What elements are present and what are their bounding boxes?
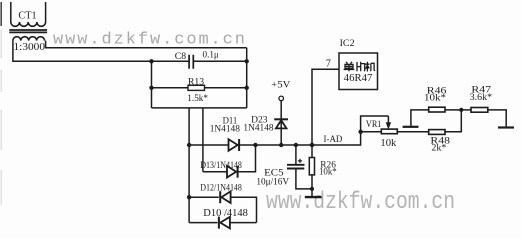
IC2 box [339,53,378,90]
svg-text:10k: 10k [380,138,397,149]
svg-text:CT1: CT1 [18,11,36,22]
label pin 7 [326,58,331,69]
svg-text:7: 7 [326,58,331,69]
svg-text:IC2: IC2 [340,39,355,49]
label 1N4148 (D11) [210,124,240,134]
svg-text:1.5k*: 1.5k* [187,94,208,104]
label R46 [427,87,447,97]
svg-text:+5V: +5V [271,80,290,90]
label D12/1N4148 [200,183,242,193]
svg-text:R13: R13 [188,78,204,88]
label C8 [175,52,187,62]
wire: pin 7 to I-AD node [312,69,339,145]
svg-text:1N4148: 1N4148 [243,124,273,134]
label 10k* (R26) [319,168,337,178]
diode D13 [203,145,256,178]
node: R13 right junction [245,86,249,90]
label I-AD [324,135,343,145]
node: pin7/R26 junction [310,143,314,147]
node: R26 top junction [310,143,314,147]
label 2k* [431,144,446,154]
label 3.6k* [470,93,493,103]
label D11 [223,117,238,127]
svg-text:www.dzkfw.com.cn: www.dzkfw.com.cn [53,31,245,50]
node: D23 junction [279,143,283,147]
svg-text:I-AD: I-AD [324,135,343,145]
svg-text:C8: C8 [175,52,187,62]
label 10k* (R46) [424,94,446,104]
label R47 [471,86,491,96]
label 1N4148 (D23) [243,124,273,134]
label 10k (VR1) [380,138,397,149]
svg-text:3.6k*: 3.6k* [470,93,493,103]
svg-text:10μ/16V: 10μ/16V [256,177,289,187]
svg-text:VR1: VR1 [366,120,382,130]
wire: ladder drop V2 [202,108,204,172]
scan artifact left edge [0,2,2,205]
ground (below R26) [305,189,322,197]
node: R13 left junction [149,86,153,90]
svg-text:D13/1N4148: D13/1N4148 [200,161,242,171]
node: VR1 left junction [358,130,362,134]
label IC2 [340,39,355,49]
node: D13 riser junction [253,143,257,147]
label D10/4148 [203,208,248,219]
wire: secondary right terminal to right rail [46,41,247,48]
node: C8 left junction [149,59,153,63]
svg-text:10k*: 10k* [424,94,446,104]
watermark top [53,31,245,50]
watermark bottom [266,189,455,216]
+5V terminal [279,96,284,128]
label VR1 [366,120,382,130]
svg-text:1:3000: 1:3000 [14,42,46,53]
label CT1 [18,11,36,22]
resistor R13 [152,85,247,90]
wire: main I-AD line [238,132,361,145]
potentiometer VR1 [361,116,429,134]
label +5V [271,80,290,90]
diode D11 [189,139,239,151]
wire: network bottom line [152,107,247,109]
label 1:3000 [14,42,46,53]
transformer CT1 [9,2,47,41]
label 10u/16V [256,177,289,187]
capacitor C8 [189,55,247,69]
svg-text:10k*: 10k* [319,168,337,178]
label R13 [188,78,204,88]
wire: left rail [151,61,153,108]
diode D23 [274,119,288,145]
svg-text:46R47: 46R47 [344,73,373,84]
diode D10 [189,217,256,229]
node: V1-D11 junction [187,143,191,147]
label 0.1u [203,51,219,61]
svg-text:1N4148: 1N4148 [210,124,240,134]
capacitor EC5 [287,145,312,189]
wire: ladder rail V1 [188,108,190,223]
resistor R26 [309,145,314,189]
ground (right of R47) [498,126,514,128]
node: C8 right junction [245,59,249,63]
label R48 [430,137,450,147]
node: EC5 top junction [294,143,298,147]
wire: right rail [246,48,248,108]
label danpianji (CJK) [344,62,375,72]
svg-text:0.1μ: 0.1μ [203,51,219,61]
svg-text:D10 /4148: D10 /4148 [203,208,248,219]
label D13/1N4148 [200,161,242,171]
label 46R47 [344,73,373,84]
svg-text:2k*: 2k* [431,144,446,154]
resistor R46 [429,107,471,112]
label EC5 [264,168,284,178]
node: V1-D12 junction [187,195,191,199]
resistor R48 [429,110,462,135]
wire: secondary left terminal to C8 line [13,41,189,62]
label R26 [320,161,336,171]
svg-text:www.dzkfw.com.cn: www.dzkfw.com.cn [266,189,455,216]
ground (left of R46) [403,110,429,127]
node: R26 bottom junction [310,187,314,191]
diode D12 [189,191,256,222]
resistor R47 [471,108,506,127]
svg-text:D12/1N4148: D12/1N4148 [200,183,242,193]
label D23 [251,116,268,126]
node: R46/R48/R47 junction [459,108,463,112]
label 1.5k* [187,94,208,104]
